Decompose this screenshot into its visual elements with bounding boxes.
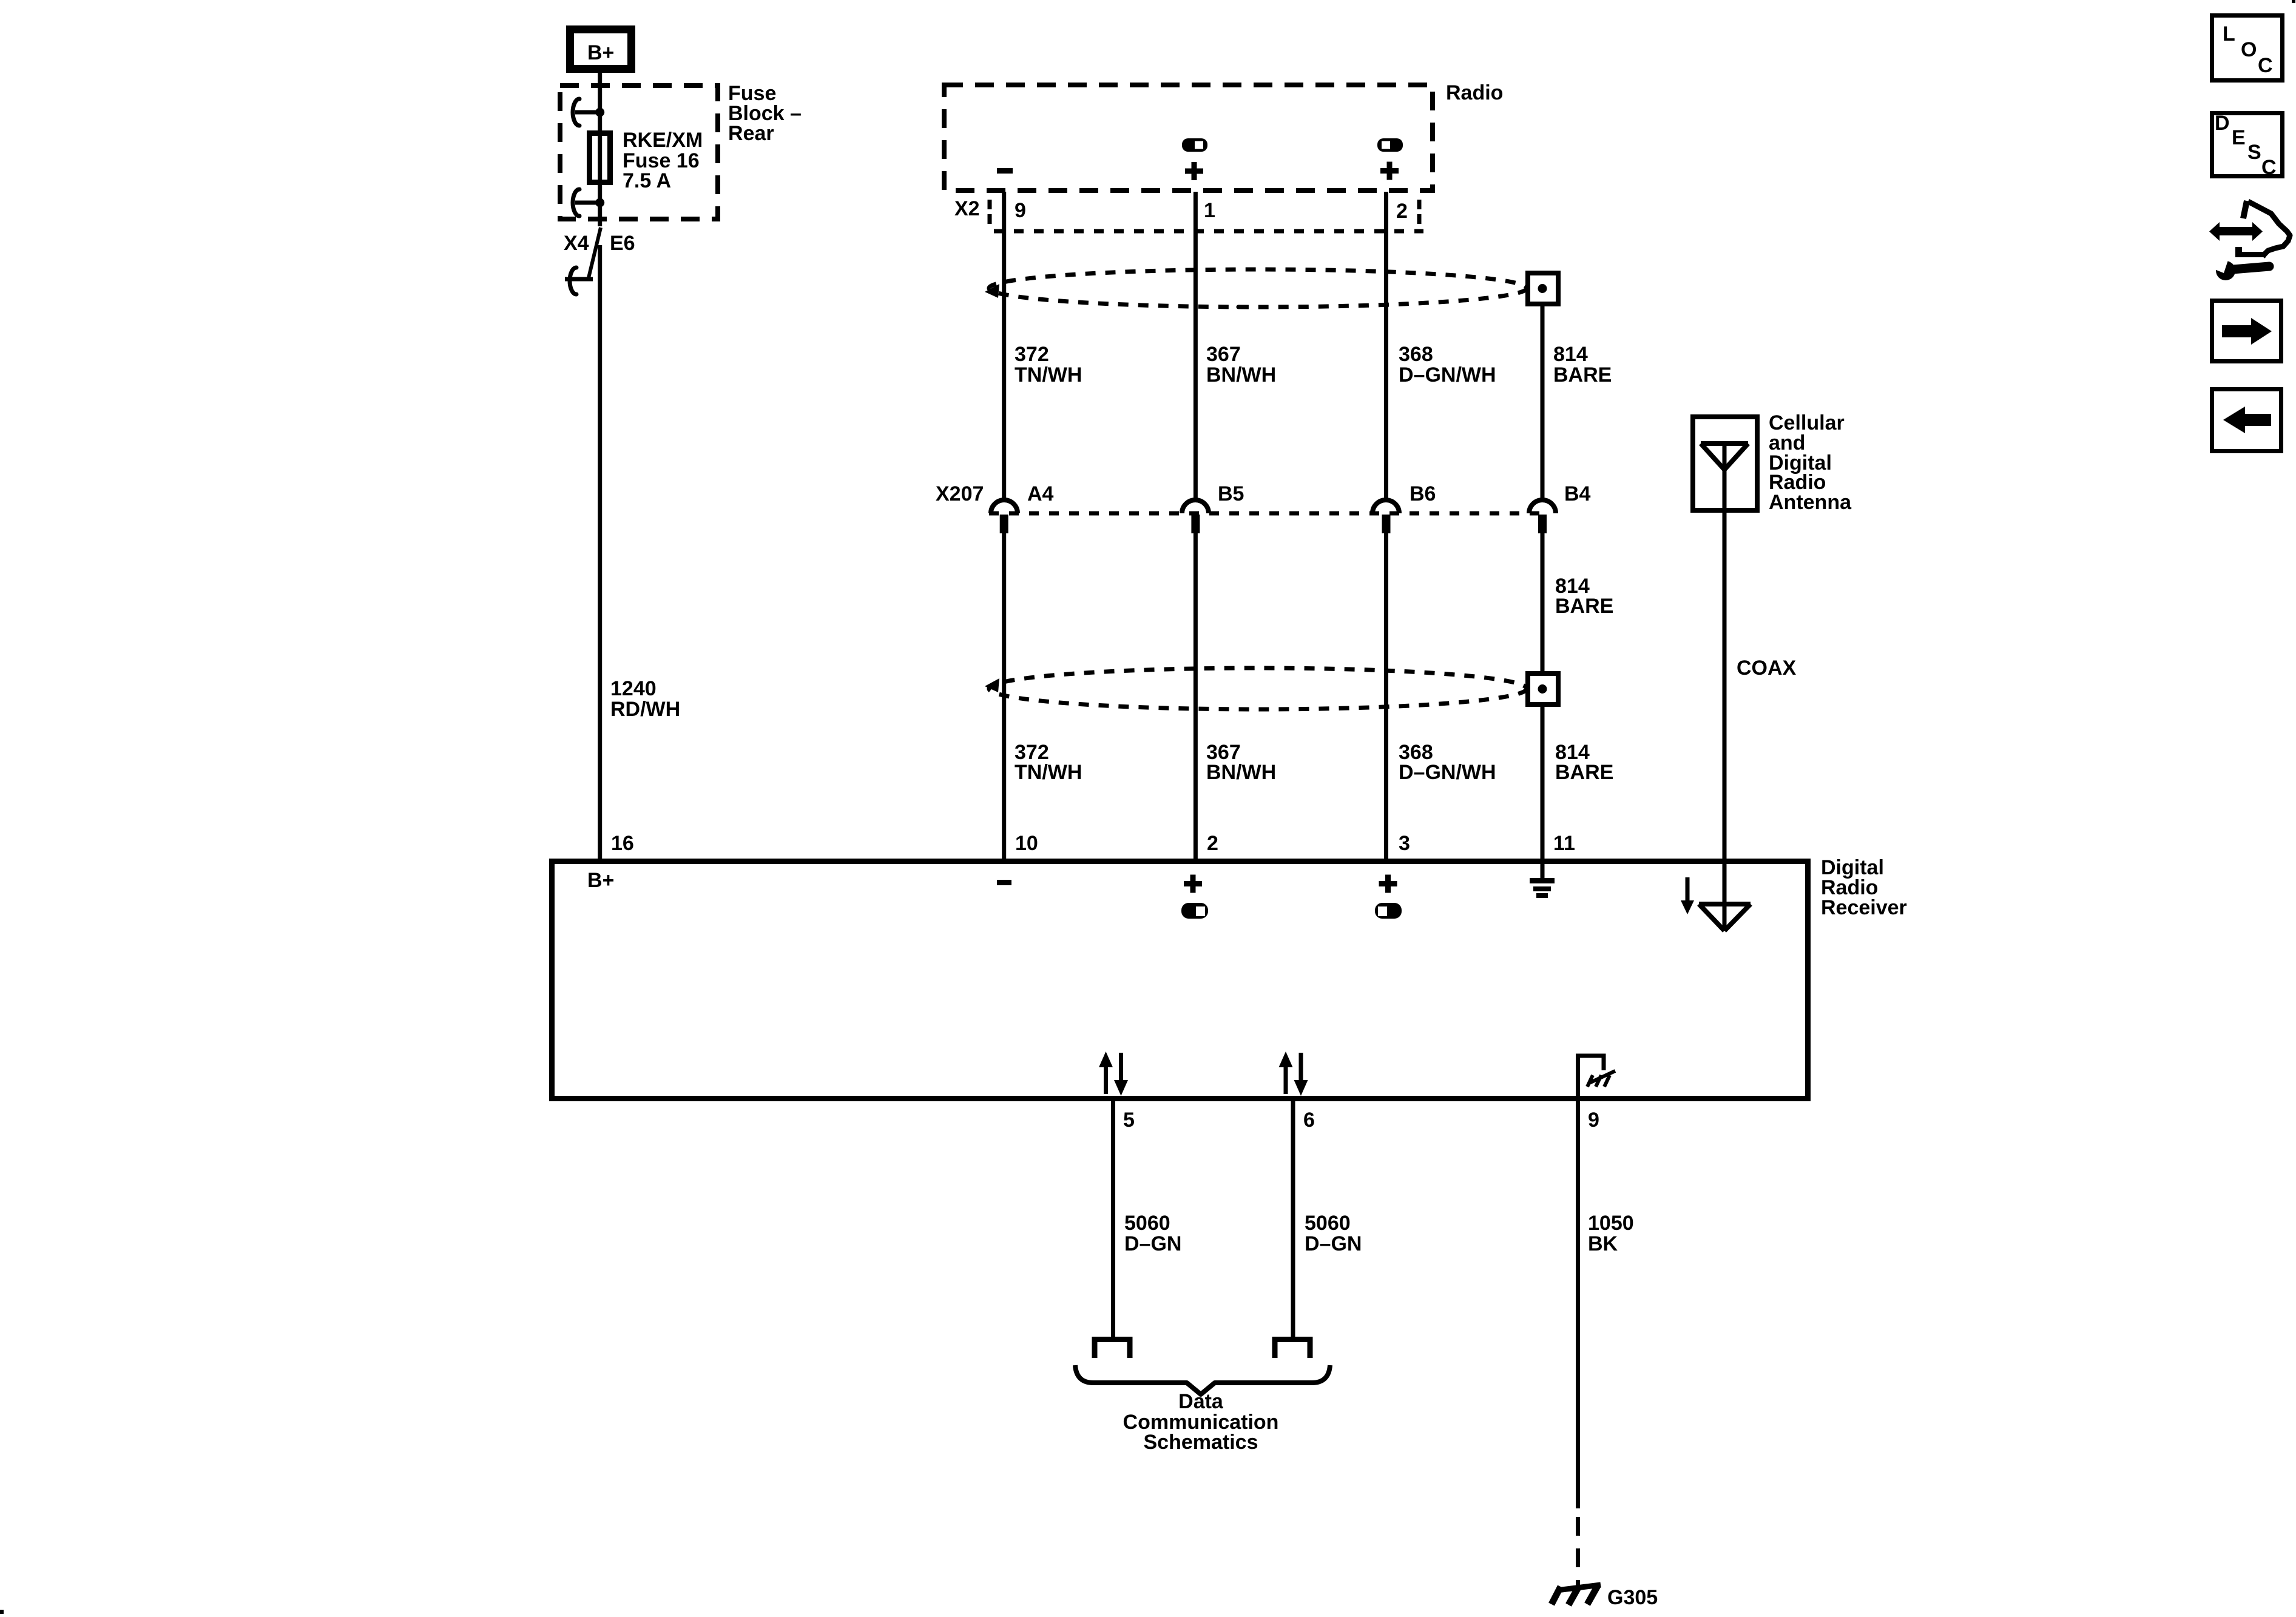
wire label 368 D-GN/WH (lower) xyxy=(1399,741,1496,784)
wire 814 BARE (shield drain) xyxy=(1541,306,1545,500)
svg-text:X2: X2 xyxy=(954,197,980,220)
wire 1050 BK (pin 9) xyxy=(1576,1101,1580,1508)
svg-text:Antenna: Antenna xyxy=(1769,491,1852,514)
radio capsule icon 1 xyxy=(1182,138,1207,152)
receiver internal down arrow xyxy=(1681,877,1694,914)
wire label 1240 RD/WH xyxy=(610,677,680,721)
svg-text:S: S xyxy=(2247,141,2261,164)
svg-text:5: 5 xyxy=(1123,1109,1135,1132)
svg-text:368: 368 xyxy=(1399,343,1433,366)
wire label 372 TN/WH (lower) xyxy=(1015,741,1082,784)
wire 5060 D-GN (pin 6) xyxy=(1291,1101,1295,1337)
svg-text:C: C xyxy=(2258,54,2273,77)
receiver internal ground elbow (pin 9) xyxy=(1578,1056,1616,1100)
svg-text:Rear: Rear xyxy=(728,122,774,145)
svg-text:11: 11 xyxy=(1553,832,1575,855)
wire label 367 BN/WH xyxy=(1206,343,1276,387)
svg-text:G305: G305 xyxy=(1607,1586,1658,1609)
radio terminal plus 1 xyxy=(1185,162,1203,180)
svg-text:D–GN: D–GN xyxy=(1305,1232,1362,1255)
dashed wire to G305 xyxy=(1576,1517,1580,1586)
wire 368 D-GN/WH (B6 to pin 3) xyxy=(1384,533,1388,860)
radio terminal plus 2 xyxy=(1380,162,1399,180)
X207 terminal A4 xyxy=(991,500,1018,533)
COAX wire xyxy=(1723,513,1727,931)
node B+ (battery feed box) xyxy=(570,30,632,69)
wire from B+ through fuse to pin 16 xyxy=(598,73,602,226)
connector X2 right tick xyxy=(1417,200,1422,224)
off-page connector pin 5 xyxy=(1095,1340,1130,1359)
svg-text:X207: X207 xyxy=(936,482,984,505)
shield termination square 2 xyxy=(1528,673,1558,704)
X207 terminal B6 xyxy=(1373,500,1399,533)
svg-text:B+: B+ xyxy=(587,41,614,64)
shield termination square 1 xyxy=(1528,273,1558,304)
svg-text:Radio: Radio xyxy=(1446,81,1503,104)
svg-text:BARE: BARE xyxy=(1555,595,1613,618)
Digital Radio Receiver box xyxy=(552,862,1808,1099)
svg-text:1050: 1050 xyxy=(1588,1212,1634,1235)
fuse block dashed box xyxy=(560,86,718,219)
in-line connector X4 / E6 xyxy=(564,228,635,294)
wire 372 TN/WH (A4 to pin 10) xyxy=(1002,533,1006,860)
wire 1240 RD/WH down to receiver pin 16 xyxy=(598,245,602,860)
svg-text:C: C xyxy=(2261,156,2277,179)
svg-text:B6: B6 xyxy=(1410,482,1436,505)
wire 367 BN/WH (B5 to pin 2) xyxy=(1194,533,1198,860)
svg-text:9: 9 xyxy=(1588,1109,1599,1132)
wire 367 BN/WH (pin 1 to B5) xyxy=(1194,192,1198,500)
svg-text:BK: BK xyxy=(1588,1232,1618,1255)
svg-text:X4: X4 xyxy=(564,232,589,255)
connector hook upper (fuse block) xyxy=(573,99,604,126)
svg-text:TN/WH: TN/WH xyxy=(1015,363,1082,387)
receiver internal ground (pin 11) xyxy=(1530,878,1555,898)
svg-text:D: D xyxy=(2215,112,2230,135)
svg-text:2: 2 xyxy=(1396,200,1408,223)
svg-text:Schematics: Schematics xyxy=(1144,1431,1258,1454)
svg-text:5060: 5060 xyxy=(1305,1212,1351,1235)
shield ellipse 2 xyxy=(985,668,1527,709)
svg-text:BARE: BARE xyxy=(1555,761,1613,784)
wire 5060 D-GN (pin 5) xyxy=(1111,1101,1115,1337)
wire 368 D-GN/WH (pin 2 to B6) xyxy=(1384,192,1388,500)
svg-text:BARE: BARE xyxy=(1553,363,1612,387)
svg-text:L: L xyxy=(2223,22,2235,46)
svg-text:7.5 A: 7.5 A xyxy=(623,169,671,192)
connector X2 dashed row line xyxy=(994,229,1423,234)
svg-text:E: E xyxy=(2232,126,2246,149)
receiver internal antenna symbol xyxy=(1699,904,1751,931)
X207 terminal B5 xyxy=(1182,500,1209,533)
sidebar icon back arrow xyxy=(2212,390,2281,451)
receiver capsule icon 2 xyxy=(1375,903,1402,919)
wire label 814 BARE (above lower shield) xyxy=(1555,575,1613,618)
svg-text:372: 372 xyxy=(1015,343,1049,366)
sidebar icon LOC xyxy=(2212,16,2283,81)
svg-text:367: 367 xyxy=(1206,343,1241,366)
receiver terminal plus 2 xyxy=(1379,875,1397,893)
svg-text:COAX: COAX xyxy=(1737,657,1797,680)
wire label 814 BARE (lower) xyxy=(1555,741,1613,784)
svg-text:Receiver: Receiver xyxy=(1821,896,1907,919)
corner registration dots xyxy=(2292,0,2295,3)
shield ellipse 1 xyxy=(985,269,1527,307)
svg-text:B+: B+ xyxy=(587,869,614,892)
connector X2 left tick xyxy=(988,200,992,224)
svg-text:O: O xyxy=(2241,38,2257,61)
svg-text:6: 6 xyxy=(1303,1109,1315,1132)
svg-text:BN/WH: BN/WH xyxy=(1206,761,1276,784)
svg-text:5060: 5060 xyxy=(1124,1212,1170,1235)
receiver terminal minus xyxy=(997,880,1011,885)
svg-text:9: 9 xyxy=(1015,199,1026,222)
wire label 814 BARE xyxy=(1553,343,1612,387)
connector hook lower (fuse block) xyxy=(573,189,604,216)
svg-text:E6: E6 xyxy=(610,232,635,255)
wire label 372 TN/WH xyxy=(1015,343,1082,387)
svg-text:D–GN: D–GN xyxy=(1124,1232,1181,1255)
svg-text:10: 10 xyxy=(1015,832,1038,855)
wire 814 BARE (B4 to lower shield) xyxy=(1541,533,1545,672)
receiver bottom: data arrows pin 5 xyxy=(1099,1052,1128,1096)
Data Communication Schematics xyxy=(1123,1390,1279,1454)
Radio dashed box xyxy=(944,85,1433,191)
svg-text:B4: B4 xyxy=(1564,482,1591,505)
svg-text:RD/WH: RD/WH xyxy=(610,698,680,721)
connector X207 row xyxy=(936,482,1591,513)
wire label 368 D-GN/WH xyxy=(1399,343,1496,387)
ground G305 symbol xyxy=(1551,1585,1601,1605)
sidebar icon next arrow xyxy=(2212,301,2281,362)
svg-text:2: 2 xyxy=(1207,832,1218,855)
radio capsule icon 2 xyxy=(1377,138,1403,152)
svg-text:BN/WH: BN/WH xyxy=(1206,363,1276,387)
receiver capsule icon 1 xyxy=(1181,903,1208,919)
svg-text:D–GN/WH: D–GN/WH xyxy=(1399,761,1496,784)
wire 372 TN/WH (pin 9 to A4) xyxy=(1002,192,1006,500)
svg-text:3: 3 xyxy=(1399,832,1410,855)
Cellular and Digital Radio Antenna xyxy=(1693,411,1852,514)
sidebar icon wiring tools xyxy=(2209,201,2290,280)
X207 terminal B4 xyxy=(1529,500,1556,533)
sidebar icon DESC xyxy=(2212,112,2283,179)
svg-text:D–GN/WH: D–GN/WH xyxy=(1399,363,1496,387)
svg-text:1: 1 xyxy=(1204,199,1215,222)
radio terminal minus xyxy=(997,168,1013,174)
receiver bottom: data arrows pin 6 xyxy=(1279,1052,1308,1096)
svg-text:1240: 1240 xyxy=(610,677,657,700)
fuse RKE/XM Fuse 16 7.5 A xyxy=(590,129,703,192)
svg-text:TN/WH: TN/WH xyxy=(1015,761,1082,784)
svg-text:A4: A4 xyxy=(1027,482,1054,505)
svg-text:16: 16 xyxy=(611,832,634,855)
svg-text:814: 814 xyxy=(1553,343,1588,366)
receiver terminal plus 1 xyxy=(1184,875,1202,893)
svg-text:RKE/XM: RKE/XM xyxy=(623,129,703,152)
wire label 367 BN/WH (lower) xyxy=(1206,741,1276,784)
off-page connector pin 6 xyxy=(1275,1340,1310,1359)
svg-text:Data: Data xyxy=(1178,1390,1224,1413)
brace xyxy=(1075,1365,1330,1394)
svg-text:B5: B5 xyxy=(1218,482,1244,505)
